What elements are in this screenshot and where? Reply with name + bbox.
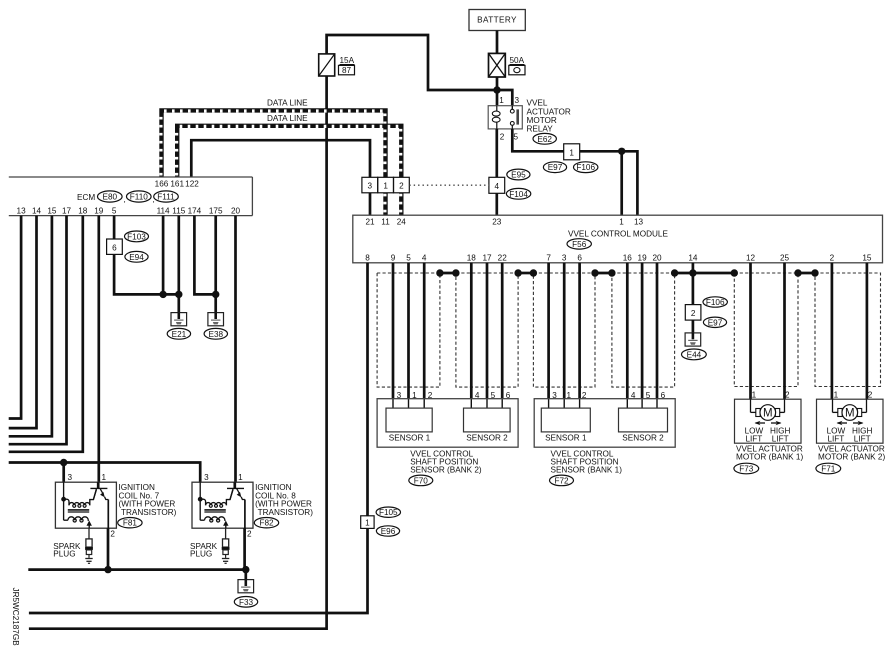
svg-text:E94: E94 (129, 253, 144, 262)
data line 2 (ECM 161 to connector box 2) (177, 114, 402, 178)
svg-text:SENSOR 2: SENSOR 2 (466, 434, 508, 443)
wire 15A fuse long run down and left (29, 76, 327, 629)
svg-text:18: 18 (78, 206, 88, 215)
svg-text:3: 3 (562, 254, 567, 263)
wire connector 1 to module pins 1 and 13 (580, 151, 638, 215)
wire module 6 to sensor1 bank1 (578, 263, 581, 399)
wire box3 to module pin 21 (369, 193, 372, 215)
svg-text:4: 4 (495, 182, 500, 191)
wire bus to coil1 pin 3 (62, 463, 65, 483)
svg-text:ECM: ECM (77, 193, 95, 202)
svg-text:1: 1 (752, 391, 757, 400)
svg-text:E97: E97 (548, 163, 563, 172)
data line box2 to module pin 24 (399, 193, 404, 215)
connector 4 E95/F104 (489, 169, 531, 199)
svg-text:174: 174 (188, 206, 202, 215)
svg-text:F56: F56 (572, 240, 587, 249)
svg-text:E95: E95 (511, 171, 526, 180)
wire module 15 to motor bank2 (866, 263, 869, 399)
svg-text:15: 15 (47, 206, 57, 215)
svg-text:3: 3 (552, 391, 557, 400)
node battery feed junction (493, 86, 500, 93)
fuse 15A (319, 54, 355, 76)
wire module pin 8 long run (29, 263, 368, 613)
svg-text:23: 23 (492, 217, 502, 226)
svg-text:2: 2 (428, 391, 433, 400)
svg-text:8: 8 (365, 254, 370, 263)
svg-text:17: 17 (62, 206, 72, 215)
svg-text:SENSOR 2: SENSOR 2 (622, 434, 664, 443)
dotted link line to connector 4 (409, 184, 489, 186)
ignition coil No.8 F82 (192, 473, 313, 539)
svg-text:F81: F81 (123, 519, 138, 528)
wire junction to 15A fuse (327, 35, 497, 90)
svg-text:24: 24 (397, 217, 407, 226)
wire ECM 18 (9, 216, 83, 452)
battery box (469, 10, 525, 31)
wire connector 4 to module pin 23 (495, 193, 498, 215)
svg-text:22: 22 (498, 254, 508, 263)
svg-text:F110: F110 (130, 193, 148, 202)
svg-text:TRANSISTOR): TRANSISTOR) (258, 508, 314, 517)
svg-text:1: 1 (499, 96, 504, 105)
svg-text:9: 9 (391, 254, 396, 263)
wire module pin 14 shield drain (692, 263, 695, 305)
ground E44 (682, 333, 707, 360)
svg-text:5: 5 (514, 133, 519, 142)
svg-text:1: 1 (383, 182, 388, 191)
svg-text:F105: F105 (379, 508, 398, 517)
svg-text:1: 1 (412, 391, 417, 400)
svg-text:MOTOR (BANK 1): MOTOR (BANK 1) (736, 453, 803, 462)
node junction 114 (159, 291, 166, 298)
shield box sensor2 bank1 (612, 273, 675, 387)
svg-text:5: 5 (112, 206, 117, 215)
svg-text:18: 18 (467, 254, 477, 263)
wire module 16 to sensor2 bank1 (626, 263, 629, 399)
svg-text:PLUG: PLUG (53, 550, 75, 559)
svg-text:2: 2 (691, 309, 696, 318)
wire module 19 to sensor2 bank1 (641, 263, 644, 399)
ground bus wire (28, 568, 246, 571)
ECM box E80 F110 F111 (9, 177, 253, 216)
svg-text:JR5WC2187GB: JR5WC2187GB (11, 588, 20, 647)
data line 1 (ECM 166 to connector box 1) (161, 98, 386, 177)
connector 1 F105/E96 (361, 507, 401, 536)
svg-text:15A: 15A (340, 56, 355, 65)
svg-text:87: 87 (342, 66, 352, 75)
wire connector 6 to ground junctions (114, 254, 179, 294)
wire ECM 19 to coil 1 pin 1 (97, 216, 100, 483)
svg-text:E97: E97 (708, 318, 723, 327)
svg-text:2: 2 (785, 391, 790, 400)
svg-text:6: 6 (506, 391, 511, 400)
ignition coil No.7 F81 (55, 473, 176, 539)
svg-text:6: 6 (112, 243, 117, 252)
wire 50A fuse down to junction (496, 77, 499, 106)
svg-text:SENSOR (BANK 2): SENSOR (BANK 2) (410, 466, 482, 475)
wire ECM 13 (9, 216, 21, 419)
svg-text:E38: E38 (209, 330, 224, 339)
svg-text:175: 175 (209, 206, 223, 215)
spark plug coil2 (190, 528, 230, 563)
svg-text:F104: F104 (509, 190, 528, 199)
svg-text:1: 1 (834, 391, 839, 400)
VVEL control module F56 (353, 215, 883, 263)
svg-text:1: 1 (365, 519, 370, 528)
svg-text:13: 13 (634, 217, 644, 226)
svg-text:E62: E62 (537, 135, 552, 144)
actuator motor bank2 F71 (816, 391, 886, 474)
svg-text:11: 11 (381, 217, 390, 226)
wire junction to relay pin 3 (497, 90, 512, 106)
svg-text:25: 25 (780, 254, 790, 263)
svg-text:TRANSISTOR): TRANSISTOR) (121, 508, 177, 517)
svg-text:2: 2 (830, 254, 835, 263)
svg-text:115: 115 (172, 206, 185, 215)
svg-text:2: 2 (110, 530, 115, 539)
wire to ground F33 (244, 570, 247, 580)
svg-text:MOTOR: MOTOR (527, 116, 557, 125)
wire coil2 pin2 to ground bus (243, 528, 246, 569)
wire module 7 to sensor1 bank1 (547, 263, 550, 399)
svg-text:6: 6 (661, 391, 666, 400)
svg-text:122: 122 (185, 179, 199, 188)
svg-text:ACTUATOR: ACTUATOR (527, 107, 571, 116)
svg-text:SENSOR 1: SENSOR 1 (389, 434, 431, 443)
wire connector 2 to ground E44 (692, 320, 695, 333)
wire module 12 to motor bank1 (749, 263, 752, 399)
svg-text:14: 14 (688, 254, 698, 263)
svg-text:19: 19 (94, 206, 104, 215)
actuator motor bank1 F73 (734, 391, 804, 474)
shield link wire 2 (518, 272, 533, 275)
ground E38 (204, 313, 227, 340)
sensor assembly bank2 F70 (377, 391, 518, 486)
sensor assembly bank1 F72 (534, 391, 675, 486)
wire module 17 to sensor2 bank2 (486, 263, 489, 399)
svg-text:DATA LINE: DATA LINE (267, 98, 308, 107)
svg-text:2: 2 (868, 391, 873, 400)
svg-text:BATTERY: BATTERY (477, 16, 517, 25)
svg-text:21: 21 (365, 217, 375, 226)
svg-text:3: 3 (204, 473, 209, 482)
node junction 175 (212, 291, 219, 298)
connector boxes 3 1 2 (362, 177, 409, 193)
wire ECM 175 to ground E38 (214, 216, 217, 313)
wire module 3 to sensor1 bank1 (563, 263, 566, 399)
svg-text:F70: F70 (414, 476, 429, 485)
wire ECM 115 to ground E21 (177, 216, 180, 313)
wire module 9 to sensor1 bank2 (392, 263, 395, 399)
wire module 18 to sensor2 bank2 (470, 263, 473, 399)
relay E62 (488, 96, 571, 144)
svg-text:F111: F111 (157, 193, 175, 202)
wire ECM 15 (9, 216, 52, 437)
svg-text:F71: F71 (821, 465, 836, 474)
svg-text:VVEL CONTROL MODULE: VVEL CONTROL MODULE (568, 229, 668, 238)
wire ECM 14 (9, 216, 37, 429)
svg-text:14: 14 (32, 206, 42, 215)
svg-text:3: 3 (397, 391, 402, 400)
shield box motor bank2 (815, 273, 881, 387)
svg-text:F106: F106 (706, 298, 725, 307)
svg-text:1: 1 (569, 148, 574, 157)
wire ECM 174 (194, 216, 215, 295)
node ground bus coil1 (104, 566, 111, 573)
svg-text:E21: E21 (172, 330, 187, 339)
svg-text:MOTOR (BANK 2): MOTOR (BANK 2) (818, 453, 885, 462)
svg-text:F72: F72 (554, 476, 569, 485)
svg-text:F106: F106 (576, 163, 595, 172)
svg-text:6: 6 (577, 254, 582, 263)
svg-text:20: 20 (652, 254, 662, 263)
svg-text:3: 3 (68, 473, 73, 482)
svg-text:F103: F103 (127, 232, 146, 241)
wire relay pin2 to connector 4 (495, 129, 498, 177)
wire ECM 20 to coil 2 pin 1 (234, 216, 237, 483)
svg-text:19: 19 (638, 254, 648, 263)
svg-text:SENSOR 1: SENSOR 1 (545, 434, 587, 443)
wire ECM 122 to connector box 3 (191, 140, 370, 177)
wire module 20 to sensor2 bank1 (656, 263, 659, 399)
shield box sensor1 bank1 (533, 273, 595, 387)
svg-text:1: 1 (238, 473, 243, 482)
wire coil1 pin2 to ground bus (107, 528, 110, 569)
svg-text:114: 114 (157, 206, 170, 215)
shield box sensor2 bank2 (456, 273, 518, 387)
svg-text:2: 2 (247, 530, 252, 539)
svg-text:5: 5 (646, 391, 651, 400)
svg-text:E96: E96 (381, 527, 396, 536)
svg-text:17: 17 (482, 254, 492, 263)
wire module 25 to motor bank1 (783, 263, 786, 399)
svg-text:4: 4 (631, 391, 636, 400)
node junction 115 (175, 291, 182, 298)
wire ECM 17 (9, 216, 67, 445)
svg-text:2: 2 (582, 391, 587, 400)
wire module 4 to sensor1 bank2 (423, 263, 426, 399)
svg-text:SENSOR (BANK 1): SENSOR (BANK 1) (551, 466, 623, 475)
svg-text:15: 15 (862, 254, 872, 263)
svg-text:1: 1 (567, 391, 572, 400)
fusible link 50A (489, 53, 526, 77)
node ground bus coil2 (242, 566, 249, 573)
node relay output junction (618, 148, 625, 155)
ground E21 (167, 313, 190, 340)
svg-text:20: 20 (231, 206, 241, 215)
svg-text:E44: E44 (687, 350, 702, 359)
svg-text:1: 1 (102, 473, 107, 482)
svg-text:F33: F33 (239, 598, 254, 607)
data line box1 to module pin 11 (383, 193, 388, 215)
wire ECM 5 through connector 6 (113, 216, 116, 239)
connector 6 F103/E94 (107, 231, 149, 262)
connector 1 E97/F106 (543, 144, 598, 173)
svg-text:5: 5 (491, 391, 496, 400)
shield link wire 3 (595, 272, 612, 275)
svg-text:2: 2 (399, 182, 404, 191)
svg-text:2: 2 (500, 133, 505, 142)
svg-text:F73: F73 (739, 465, 754, 474)
svg-text:PLUG: PLUG (190, 550, 212, 559)
connector 2 F106/E97 (685, 297, 727, 328)
shield box motor bank1 (734, 273, 798, 387)
shield link wire 4 to pin 14 drain (675, 272, 735, 275)
svg-text:16: 16 (623, 254, 633, 263)
svg-text:DATA LINE: DATA LINE (267, 114, 308, 123)
svg-text:166: 166 (155, 179, 169, 188)
svg-text:50A: 50A (510, 56, 525, 65)
wire module 2 to motor bank2 (831, 263, 834, 399)
svg-text:VVEL: VVEL (527, 99, 548, 108)
node coil bus junction (60, 459, 67, 466)
svg-text:F82: F82 (259, 519, 274, 528)
svg-text:3: 3 (515, 96, 520, 105)
svg-text:3: 3 (368, 182, 373, 191)
svg-text:E80: E80 (103, 193, 118, 202)
svg-text:,: , (124, 195, 126, 204)
wire relay pin5 to connector 1 (511, 125, 513, 129)
wire battery to 50A fuse (496, 31, 499, 54)
shield link wire 5 (798, 272, 815, 275)
svg-text:4: 4 (475, 391, 480, 400)
svg-text:1: 1 (619, 217, 624, 226)
wire module 22 to sensor2 bank2 (501, 263, 504, 399)
svg-text:RELAY: RELAY (527, 125, 554, 134)
shield link wire 1 (440, 272, 456, 275)
wire module 5 to sensor1 bank2 (407, 263, 410, 399)
shield box sensor1 bank2 (377, 273, 440, 387)
svg-text:4: 4 (422, 254, 427, 263)
svg-text:12: 12 (746, 254, 756, 263)
svg-text:161: 161 (170, 179, 184, 188)
ground F33 (234, 580, 257, 608)
svg-text:5: 5 (406, 254, 411, 263)
spark plug coil1 (53, 528, 93, 563)
svg-text:7: 7 (546, 254, 551, 263)
svg-text:13: 13 (17, 206, 27, 215)
coil supply bus wire (9, 463, 201, 483)
wire ECM 114 (162, 216, 165, 295)
